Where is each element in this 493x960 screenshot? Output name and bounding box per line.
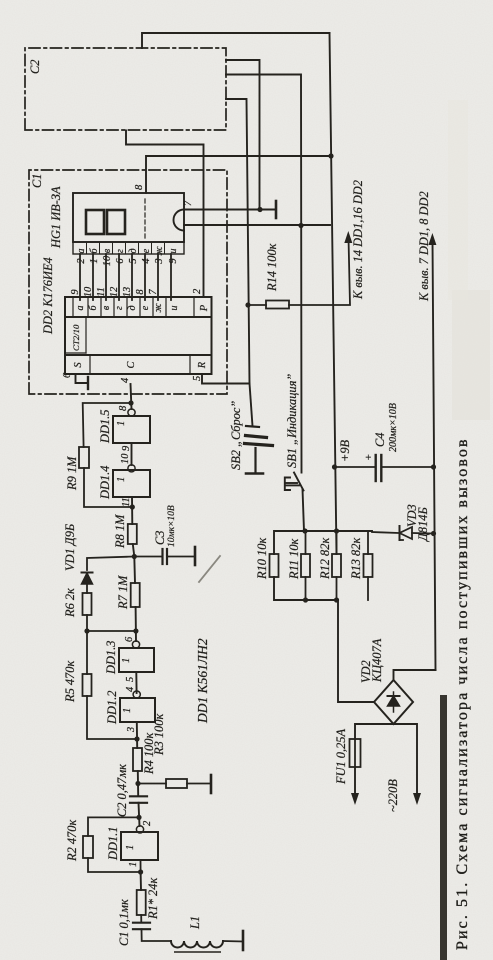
svg-text:С1 0,1мк: С1 0,1мк xyxy=(117,899,131,946)
diode VD1 xyxy=(82,573,93,585)
DD1.5 output bubble xyxy=(128,409,135,416)
node dot R12 lead on rail xyxy=(334,528,339,533)
svg-text:Р: Р xyxy=(199,304,210,312)
wire reset line left to SB2 xyxy=(250,384,253,427)
svg-text:С: С xyxy=(126,360,137,368)
capacitor C4 leads xyxy=(335,466,376,468)
node dot R9 right on spine xyxy=(128,400,133,405)
node dot R9 left on spine xyxy=(130,504,135,509)
svg-text:R8 1М: R8 1М xyxy=(113,514,127,549)
scan smudge lower band xyxy=(452,290,490,420)
svg-text:г: г xyxy=(115,249,126,253)
node dot anode line to SB1 xyxy=(298,223,303,228)
resistor R14 xyxy=(266,301,289,309)
svg-text:КЦ407А: КЦ407А xyxy=(370,638,384,683)
wire right rail of resistor bank xyxy=(274,531,372,554)
resistor R2 xyxy=(83,836,93,858)
ground at L1 xyxy=(242,931,245,950)
svg-text:в: в xyxy=(102,248,113,253)
svg-text:R1* 24к: R1* 24к xyxy=(146,878,160,920)
scan smudge near caption xyxy=(448,100,468,300)
svg-text:DD1.3: DD1.3 xyxy=(104,641,118,675)
svg-text:С4: С4 xyxy=(373,433,387,447)
wire ground line (к выв 7) xyxy=(433,240,436,670)
wire left rail to bridge top xyxy=(338,600,374,702)
svg-text:R12 82к: R12 82к xyxy=(318,538,332,580)
inductor L1 coil xyxy=(171,941,223,948)
svg-text:С3: С3 xyxy=(153,531,167,545)
svg-text:R3 100к: R3 100к xyxy=(152,714,166,756)
HG1 digit 8 segments xyxy=(86,210,104,234)
ground at C3 xyxy=(194,547,197,565)
svg-text:+9В: +9В xyxy=(338,439,352,462)
DD1.3 input bubble xyxy=(132,641,139,648)
ground at HG1 pin7 xyxy=(275,201,278,218)
inverter DD1.1 box xyxy=(121,832,158,860)
capacitor C4 plates xyxy=(375,455,377,481)
R2 right lead xyxy=(88,817,139,836)
arrow to ground pins DD1 DD2 xyxy=(428,233,436,245)
resistor R4 xyxy=(133,748,142,771)
svg-text:и: и xyxy=(168,249,179,254)
svg-text:8: 8 xyxy=(118,405,129,411)
svg-text:е: е xyxy=(140,305,151,310)
wire P output of DD2 to C2 input xyxy=(126,131,204,298)
wire bridge right vertex to ground line xyxy=(394,670,436,680)
wire fuse to bridge bottom xyxy=(355,724,394,739)
svg-text:FU1 0,25А: FU1 0,25А xyxy=(334,729,348,785)
svg-text:1: 1 xyxy=(116,421,127,426)
svg-text:и: и xyxy=(169,306,180,311)
svg-text:1: 1 xyxy=(89,258,100,263)
arrow mains upper xyxy=(351,793,359,805)
wire R4 to C2 cap xyxy=(137,771,139,796)
svg-text:2: 2 xyxy=(192,289,203,294)
svg-text:S: S xyxy=(73,362,84,368)
svg-text:DD1 К561ЛН2: DD1 К561ЛН2 xyxy=(195,638,210,724)
node A dot spine at C3 xyxy=(132,554,137,559)
wire left rail of resistor bank xyxy=(274,577,338,600)
wire C2 anode pin through SB1 to +9V xyxy=(226,75,302,473)
ground at DD2 pin6 xyxy=(87,377,89,389)
scan gutter dark bar xyxy=(440,695,447,960)
wire bridge left vertex to mains arrow xyxy=(394,724,418,798)
svg-text:DD1.2: DD1.2 xyxy=(105,691,119,725)
switch SB1 blade and actuator xyxy=(285,473,304,532)
svg-text:R7 1М: R7 1М xyxy=(116,575,130,610)
svg-text:9: 9 xyxy=(121,445,132,451)
R9 left lead xyxy=(84,468,132,507)
capacitor C3 plates xyxy=(161,549,163,564)
wire C2 grid pin to ground node xyxy=(226,60,260,210)
wire DD1.2 input to R4 xyxy=(136,722,138,748)
svg-text:C2: C2 xyxy=(28,60,42,74)
wire +9V rail long horizontal xyxy=(330,33,337,554)
svg-text:6: 6 xyxy=(115,258,126,264)
box C1 (module 1 dash-dot border) xyxy=(29,170,227,394)
svg-text:R14 100к: R14 100к xyxy=(265,243,279,292)
wire L1 to ground xyxy=(223,940,243,943)
capacitor C3 lead lower xyxy=(167,556,195,558)
svg-text:2: 2 xyxy=(76,258,87,263)
node dot R2 left on input wire xyxy=(138,869,143,874)
wire DD1.4 out to DD1.5 in xyxy=(131,443,133,465)
wire HG1 anode to SB1 line xyxy=(184,224,330,226)
zener VD3 symbol xyxy=(400,526,413,540)
main spine wire DD2 pin4 to DD1.5 xyxy=(131,384,132,409)
svg-text:R13 82к: R13 82к xyxy=(349,538,363,580)
svg-text:г: г xyxy=(114,306,125,310)
svg-text:R5 470к: R5 470к xyxy=(63,661,77,703)
svg-text:VD1 Д9Б: VD1 Д9Б xyxy=(63,523,77,571)
capacitor C2 plates xyxy=(130,795,147,797)
svg-text:1: 1 xyxy=(125,845,136,850)
svg-text:DD1.4: DD1.4 xyxy=(98,466,112,500)
R9 right lead xyxy=(83,403,131,447)
wire segment d DD2 to HG1 xyxy=(118,254,120,300)
svg-text:~220В: ~220В xyxy=(386,779,400,812)
svg-text:1: 1 xyxy=(128,862,139,867)
DD1.2 input bubble xyxy=(133,691,140,698)
svg-text:5: 5 xyxy=(125,677,136,682)
wire HG1 pin7 to ground xyxy=(184,209,276,211)
wire R7 to DD1.3 input xyxy=(135,607,137,641)
HG1 internal dashed separator xyxy=(144,197,146,238)
svg-text:C1: C1 xyxy=(30,174,44,188)
node dot DD1.2 input xyxy=(134,736,139,741)
DD2 cell letters xyxy=(75,303,180,313)
wire DD1.4 input segment xyxy=(131,497,133,524)
svg-text:6: 6 xyxy=(124,636,135,642)
resistor R5 xyxy=(83,674,92,696)
svg-text:4: 4 xyxy=(120,378,131,383)
node dot C2 grid wire join xyxy=(257,207,262,212)
node dot VD3 on ground line xyxy=(431,531,436,536)
wire VD1 to R6 xyxy=(86,584,88,593)
resistor R1 xyxy=(137,890,146,915)
wire HG1 pin8 to supply rail xyxy=(146,156,331,193)
resistor R10 xyxy=(270,554,279,577)
svg-text:в: в xyxy=(101,305,112,310)
wire R1 to C1 cap xyxy=(140,915,142,923)
node dot C4 on ground line xyxy=(431,464,436,469)
DD2 pin numbers (segment outputs) xyxy=(70,286,159,297)
R3 lower lead xyxy=(187,783,211,785)
svg-text:д: д xyxy=(128,248,139,253)
svg-text:R10 10к: R10 10к xyxy=(255,538,269,580)
svg-text:L1: L1 xyxy=(188,916,202,930)
HG1 segment letters xyxy=(76,246,179,256)
wire R5 to DD1.2 input drop xyxy=(87,696,137,739)
HG1 pin strip xyxy=(73,242,184,254)
svg-text:R: R xyxy=(197,361,208,369)
svg-text:Рис. 51. Схема сигнализатора ч: Рис. 51. Схема сигнализатора числа посту… xyxy=(454,437,471,950)
wire DD1.3 drop to R5 xyxy=(86,631,88,674)
R3 branch upper lead xyxy=(138,783,166,785)
arrow mains lower xyxy=(413,793,421,805)
inverter DD1.4 box xyxy=(113,470,150,497)
node dot SB1 on +9V rail xyxy=(302,528,307,533)
wire DD2 pin5 reset stub xyxy=(202,374,249,384)
wire R13 right lead xyxy=(367,531,369,554)
svg-text:5: 5 xyxy=(128,258,139,263)
wire segment g DD2 to HG1 xyxy=(157,254,159,300)
inverter DD1.5 box xyxy=(113,416,150,443)
svg-text:3: 3 xyxy=(154,258,165,264)
svg-text:R6 2к: R6 2к xyxy=(63,588,77,618)
svg-text:2: 2 xyxy=(142,821,153,826)
DD2 CT2 sub-cell xyxy=(65,352,86,354)
svg-text:SB1 „Индикация”: SB1 „Индикация” xyxy=(285,374,299,468)
wire DD1.3 to DD1.2 xyxy=(135,672,137,693)
fuse FU1 xyxy=(350,739,361,767)
wire C1 cap to L1 xyxy=(142,929,172,941)
svg-text:R2 470к: R2 470к xyxy=(65,820,79,862)
indicator HG1 tube body xyxy=(73,193,184,242)
svg-text:10: 10 xyxy=(120,453,131,464)
resistor R13 xyxy=(364,554,373,577)
svg-text:3: 3 xyxy=(126,727,137,733)
wire node A to R7 xyxy=(133,557,136,584)
wire segment e DD2 to HG1 xyxy=(131,254,133,300)
svg-text:а: а xyxy=(75,306,86,311)
resistor R3 xyxy=(166,779,187,788)
HG1 tube rounded end xyxy=(174,210,185,231)
wire R11 left lead xyxy=(305,577,307,600)
node dot pin8 wire on +9V rail xyxy=(328,153,333,158)
counter DD2 K176IE4 body xyxy=(65,297,212,374)
node dot R3 tap xyxy=(135,781,140,786)
arrow to supply pins DD1 DD2 xyxy=(344,231,352,243)
svg-text:DD2 К176ИЕ4: DD2 К176ИЕ4 xyxy=(41,257,55,335)
ground at R3 xyxy=(210,775,213,793)
VD2 inner diode xyxy=(388,692,400,712)
svg-text:д: д xyxy=(127,305,138,310)
svg-text:4: 4 xyxy=(141,258,152,263)
inverter DD1.2 box xyxy=(120,698,155,722)
svg-text:HG1 ИВ-ЗА: HG1 ИВ-ЗА xyxy=(49,186,63,249)
svg-text:200мк×10В: 200мк×10В xyxy=(388,403,399,452)
svg-text:DD1.1: DD1.1 xyxy=(106,827,120,861)
ground at SB2 xyxy=(246,472,263,475)
resistor R12 xyxy=(332,554,341,577)
svg-text:ж: ж xyxy=(153,303,164,313)
wire segment f DD2 to HG1 xyxy=(144,254,146,300)
wire segment b DD2 to HG1 xyxy=(92,254,94,300)
wire segment c DD2 to HG1 xyxy=(105,254,107,300)
HG1 pin numbers xyxy=(76,255,179,266)
wire R12 right lead xyxy=(336,531,338,554)
pushbutton SB2 xyxy=(245,426,273,472)
node dot +9V xyxy=(332,464,337,469)
scratch mark artifact xyxy=(199,556,220,582)
svg-text:К выв. 14 DD1,16 DD2: К выв. 14 DD1,16 DD2 xyxy=(351,180,365,300)
resistor R9 xyxy=(79,447,89,468)
bridge rectifier VD2 diamond xyxy=(374,680,413,724)
svg-text:1: 1 xyxy=(116,477,127,482)
wire R12 left lead xyxy=(336,577,338,600)
resistor R8 xyxy=(128,524,137,544)
wire DD2 pin6 to ground xyxy=(76,374,89,383)
svg-text:Д814Б: Д814Б xyxy=(416,507,430,542)
svg-text:10мк×10В: 10мк×10В xyxy=(167,505,177,547)
node dot R12 on left rail xyxy=(334,597,339,602)
svg-text:10: 10 xyxy=(102,255,113,266)
svg-text:R9 1М: R9 1М xyxy=(65,456,79,491)
svg-text:ж: ж xyxy=(154,246,165,256)
wire top branch from node A xyxy=(87,557,134,571)
capacitor C1 plates xyxy=(133,922,150,924)
wire R8 to node A xyxy=(133,544,135,557)
wire C2 cap to DD1.1 output xyxy=(139,803,140,826)
zener VD3 leads xyxy=(372,532,398,533)
page edge mark xyxy=(175,951,220,953)
R14 top lead xyxy=(248,304,266,306)
wire C2 reset pin down to reset line xyxy=(226,99,250,384)
svg-text:С2 0,47мк: С2 0,47мк xyxy=(115,764,129,817)
svg-text:е: е xyxy=(141,248,152,253)
wire R6 to DD1.3 input drop xyxy=(87,615,136,631)
svg-text:6: 6 xyxy=(62,372,73,378)
DD1.1 output bubble xyxy=(136,826,143,833)
resistor R11 xyxy=(301,554,310,577)
node dot DD1.3 input xyxy=(133,628,138,633)
svg-text:+: + xyxy=(363,454,375,461)
svg-text:1: 1 xyxy=(122,708,133,713)
svg-text:R11 10к: R11 10к xyxy=(287,538,301,580)
svg-text:DD1.5: DD1.5 xyxy=(98,410,112,444)
svg-text:1: 1 xyxy=(121,658,132,663)
wire segment a DD2 to HG1 xyxy=(79,254,81,300)
node dot reset line at R14 xyxy=(245,302,250,307)
node dot R11 on left rail xyxy=(303,597,308,602)
svg-text:СТ2/10: СТ2/10 xyxy=(71,324,81,351)
wire DD1.1 input to R1 xyxy=(140,872,142,890)
svg-text:8: 8 xyxy=(134,184,145,190)
svg-text:4: 4 xyxy=(125,687,136,692)
svg-text:SB2 „Сброс”: SB2 „Сброс” xyxy=(229,401,243,470)
svg-text:К выв. 7 DD1, 8 DD2: К выв. 7 DD1, 8 DD2 xyxy=(417,191,431,302)
capacitor C3 lead upper xyxy=(134,556,162,558)
resistor R7 xyxy=(131,583,140,607)
inverter DD1.3 box xyxy=(119,648,154,672)
svg-text:9: 9 xyxy=(168,258,179,264)
node dot R2 tap xyxy=(136,815,141,820)
wire R11 right lead xyxy=(305,531,307,554)
wire segment grid DD2 to HG1 xyxy=(170,254,172,300)
box C2 (module 2 dash-dot border) xyxy=(25,48,226,130)
resistor R6 xyxy=(83,593,92,615)
R2 left lead xyxy=(88,858,141,872)
wire C2 supply pin to +9V rail corner xyxy=(142,33,330,48)
R14 bottom lead to arrow xyxy=(289,238,350,305)
svg-text:а: а xyxy=(76,249,87,254)
wire R13 left lead xyxy=(367,577,369,600)
DD1.4 output bubble xyxy=(128,465,135,472)
node dot top branch at DD1.3 drop xyxy=(84,628,89,633)
svg-text:7: 7 xyxy=(183,200,194,206)
wire fuse to mains arrow xyxy=(354,767,356,798)
